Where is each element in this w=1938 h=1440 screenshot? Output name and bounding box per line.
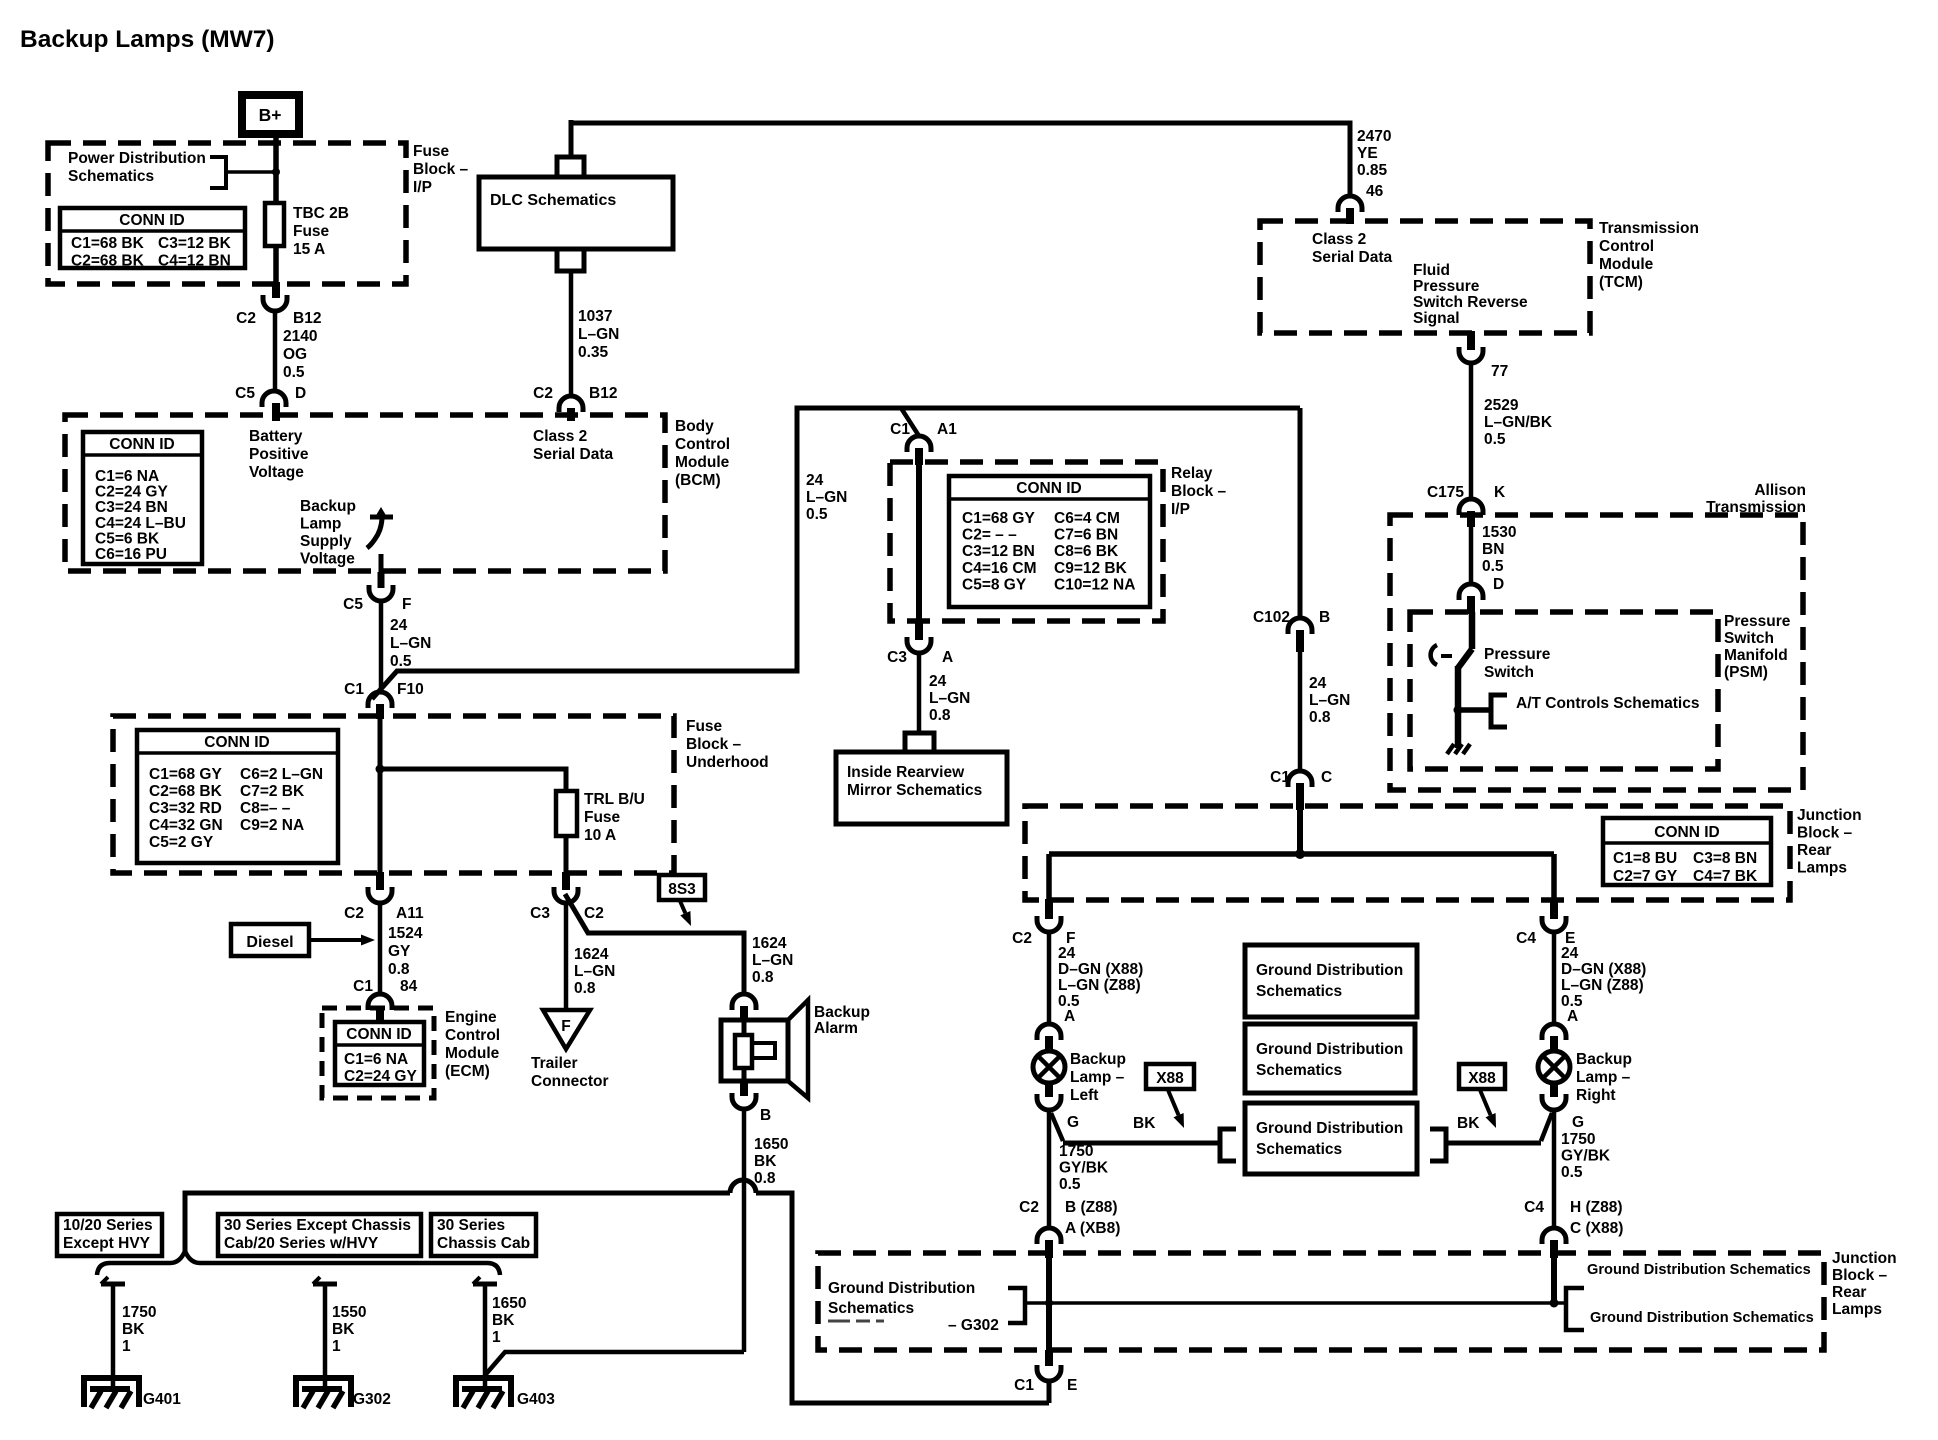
- wire left lamp ground through: [1046, 1258, 1052, 1352]
- svg-text:C2: C2: [584, 905, 604, 922]
- svg-text:Schematics: Schematics: [1256, 1062, 1342, 1079]
- label connector C5 F: [343, 596, 411, 613]
- svg-text:A/T Controls Schematics: A/T Controls Schematics: [1516, 695, 1699, 712]
- svg-text:Switch: Switch: [1484, 664, 1534, 681]
- svg-text:A: A: [1567, 1008, 1578, 1025]
- svg-text:24: 24: [806, 472, 824, 489]
- svg-text:Manifold: Manifold: [1724, 647, 1788, 664]
- ground G403: [456, 1378, 511, 1408]
- svg-text:L–GN/BK: L–GN/BK: [1484, 414, 1553, 431]
- label connector C3 C2: [530, 905, 604, 922]
- fuse block underhood box: [113, 716, 674, 873]
- svg-text:BN: BN: [1482, 541, 1504, 558]
- svg-text:1624: 1624: [752, 935, 787, 952]
- svg-text:Connector: Connector: [531, 1073, 609, 1090]
- junction block rear lamps box: [1025, 806, 1790, 900]
- tag X88 right: [1459, 1064, 1505, 1089]
- label trailer connector: [531, 1055, 609, 1090]
- svg-text:Schematics: Schematics: [68, 168, 154, 185]
- version box 30 series chassis cab: [431, 1214, 536, 1256]
- svg-text:Chassis Cab: Chassis Cab: [437, 1235, 530, 1252]
- label G302: [353, 1391, 391, 1408]
- label backup lamp supply voltage: [300, 498, 356, 568]
- svg-text:L–GN: L–GN: [806, 489, 847, 506]
- connector C1 A1: [907, 436, 931, 465]
- relay block box: [890, 462, 1163, 621]
- svg-text:Power Distribution: Power Distribution: [68, 150, 206, 167]
- svg-text:Positive: Positive: [249, 446, 309, 463]
- label backup lamp left: [1070, 1051, 1126, 1104]
- wire C1 E drop: [1047, 1380, 1052, 1403]
- engine control module box: [322, 1008, 434, 1098]
- bracket ground distribution lower: [1566, 1288, 1584, 1330]
- label connector C2 B12: [236, 310, 321, 327]
- svg-text:Ground Distribution Schematics: Ground Distribution Schematics: [1590, 1310, 1814, 1326]
- backup alarm: [721, 1000, 808, 1098]
- label wire 24 L-GN 0.8 right: [1309, 675, 1350, 726]
- svg-text:Ground Distribution: Ground Distribution: [1256, 1120, 1403, 1137]
- wire TRL branch: [380, 769, 566, 874]
- svg-text:Allison: Allison: [1754, 482, 1806, 499]
- label connector C4 E: [1516, 930, 1575, 947]
- svg-text:L–GN: L–GN: [578, 326, 619, 343]
- svg-text:Lamps: Lamps: [1832, 1301, 1882, 1318]
- label connector C1 E: [1014, 1377, 1077, 1394]
- label wire 1037 L-GN 0.35: [578, 308, 619, 361]
- svg-text:Pressure: Pressure: [1413, 278, 1480, 295]
- tag X88 left: [1146, 1064, 1194, 1089]
- svg-text:Right: Right: [1576, 1087, 1616, 1104]
- connector C2 B12: [263, 282, 287, 311]
- svg-text:24: 24: [390, 617, 408, 634]
- version box 10/20 series: [57, 1214, 162, 1256]
- svg-text:BK: BK: [1133, 1115, 1156, 1132]
- svg-text:– G302: – G302: [948, 1317, 999, 1334]
- svg-text:C3=12 BN: C3=12 BN: [962, 543, 1035, 560]
- svg-text:X88: X88: [1156, 1070, 1184, 1087]
- label connector B: [760, 1107, 771, 1124]
- svg-text:G401: G401: [143, 1391, 181, 1408]
- svg-text:1550: 1550: [332, 1304, 366, 1321]
- svg-text:C4: C4: [1524, 1199, 1544, 1216]
- svg-text:C5: C5: [343, 596, 363, 613]
- label connector G right: [1572, 1114, 1584, 1131]
- fuse TRL B/U: [556, 791, 577, 836]
- label wire 2470 YE 0.85: [1357, 128, 1391, 179]
- label connector C1 F10: [344, 681, 424, 698]
- svg-text:Trailer: Trailer: [531, 1055, 578, 1072]
- svg-text:L–GN: L–GN: [390, 635, 431, 652]
- svg-text:D–GN (X88): D–GN (X88): [1058, 961, 1143, 978]
- svg-text:C1=6 NA: C1=6 NA: [95, 468, 159, 485]
- svg-text:Fuse: Fuse: [293, 223, 330, 240]
- svg-text:E: E: [1067, 1377, 1077, 1394]
- svg-text:0.8: 0.8: [1309, 709, 1331, 726]
- node TRL branch: [376, 765, 385, 774]
- label wire 2529 L-GN/BK 0.5: [1484, 397, 1553, 448]
- svg-text:C3: C3: [887, 649, 907, 666]
- label fuse TRL B/U: [584, 791, 645, 844]
- svg-text:0.35: 0.35: [578, 344, 609, 361]
- label wire 24 L-GN 0.5: [390, 617, 431, 670]
- svg-text:Supply: Supply: [300, 533, 352, 550]
- svg-text:Fuse: Fuse: [686, 718, 723, 735]
- svg-text:G: G: [1067, 1114, 1079, 1131]
- label fuse block I/P: [413, 143, 469, 196]
- svg-text:B: B: [1319, 609, 1330, 626]
- svg-text:C1=8 BU: C1=8 BU: [1613, 850, 1677, 867]
- allison transmission box: [1390, 515, 1803, 790]
- wire BK branch right: [1446, 1113, 1552, 1143]
- svg-text:CONN ID: CONN ID: [109, 436, 174, 453]
- label connector C2 B12 bcm: [533, 385, 617, 402]
- label connector C2 A11: [344, 905, 424, 922]
- svg-text:C2: C2: [236, 310, 256, 327]
- svg-text:X88: X88: [1468, 1070, 1496, 1087]
- wire underhood main: [378, 719, 383, 874]
- version box 30 series except: [218, 1214, 421, 1256]
- pin bracket mirror: [905, 733, 934, 753]
- svg-text:BK: BK: [1457, 1115, 1480, 1132]
- ground distribution schematics box 2: [1245, 1024, 1415, 1093]
- wire 24 D-GN right: [1552, 931, 1557, 1025]
- svg-text:Module: Module: [445, 1045, 500, 1062]
- label wire 1650 BK 1: [492, 1295, 526, 1346]
- svg-text:F: F: [402, 596, 411, 613]
- svg-text:F: F: [561, 1018, 570, 1035]
- svg-text:C2=68 BK: C2=68 BK: [71, 252, 145, 269]
- label ground distribution schematics upper: [1587, 1262, 1811, 1278]
- svg-text:Left: Left: [1070, 1087, 1098, 1104]
- svg-text:2470: 2470: [1357, 128, 1391, 145]
- wire class2 to TCM: [571, 123, 1350, 198]
- svg-text:Junction: Junction: [1832, 1250, 1897, 1267]
- label wire 1750 GY/BK right: [1561, 1131, 1611, 1181]
- arrow X88 left: [1168, 1090, 1184, 1128]
- svg-text:0.8: 0.8: [929, 707, 951, 724]
- svg-text:C: C: [1321, 769, 1332, 786]
- wire 1650 BK 0.8: [742, 1109, 747, 1352]
- label class 2 serial data TCM: [1312, 231, 1393, 266]
- svg-text:B12: B12: [589, 385, 617, 402]
- wire right lamp ground end: [1551, 1258, 1557, 1303]
- svg-text:Inside Rearview: Inside Rearview: [847, 764, 965, 781]
- label connector D: [1493, 576, 1504, 593]
- bracket power distribution: [210, 157, 226, 188]
- svg-text:C8=– –: C8=– –: [240, 800, 291, 817]
- connector lamp left bottom G: [1037, 1081, 1061, 1110]
- svg-text:C4=24 L–BU: C4=24 L–BU: [95, 515, 186, 532]
- label connector C3 A: [887, 649, 953, 666]
- backup lamp right: [1538, 1051, 1570, 1083]
- fuse block I/P box: [48, 143, 406, 284]
- svg-text:C2=24 GY: C2=24 GY: [344, 1068, 417, 1085]
- svg-text:C2: C2: [344, 905, 364, 922]
- label backup lamp right: [1576, 1051, 1632, 1104]
- label pressure switch: [1484, 646, 1551, 681]
- svg-text:C7=6 BN: C7=6 BN: [1054, 527, 1118, 544]
- svg-text:TBC 2B: TBC 2B: [293, 205, 349, 222]
- connector C1 84: [368, 994, 392, 1023]
- splice wire G302: [313, 1277, 337, 1390]
- svg-text:Ground Distribution Schematics: Ground Distribution Schematics: [1587, 1262, 1811, 1278]
- svg-text:Transmission: Transmission: [1599, 220, 1699, 237]
- body control module box: [65, 415, 665, 571]
- connector C3 A: [907, 620, 931, 653]
- connector 46: [1338, 196, 1362, 224]
- svg-text:C1: C1: [353, 978, 373, 995]
- svg-text:Block –: Block –: [1171, 483, 1227, 500]
- svg-text:BK: BK: [122, 1321, 145, 1338]
- connector lamp right bottom G: [1542, 1081, 1566, 1110]
- label wire 24 D-GN right: [1561, 945, 1646, 1025]
- svg-text:Block –: Block –: [413, 161, 469, 178]
- label fuse TBC 2B: [293, 205, 349, 258]
- svg-text:I/P: I/P: [413, 179, 432, 196]
- label class 2 serial data: [533, 428, 614, 463]
- conn table underhood: [137, 730, 338, 863]
- label connector G left: [1067, 1114, 1079, 1131]
- svg-text:Backup: Backup: [814, 1004, 870, 1021]
- svg-text:C2=7 GY: C2=7 GY: [1613, 868, 1678, 885]
- svg-text:C1=68 GY: C1=68 GY: [149, 766, 222, 783]
- svg-text:GY/BK: GY/BK: [1561, 1148, 1611, 1165]
- connector C2 A11: [368, 872, 392, 903]
- svg-text:Control: Control: [1599, 238, 1654, 255]
- svg-text:(ECM): (ECM): [445, 1063, 490, 1080]
- wire 1750 GY/BK right: [1552, 1109, 1557, 1229]
- svg-text:Schematics: Schematics: [828, 1300, 914, 1317]
- connector C2 F: [1037, 899, 1061, 932]
- label G401: [143, 1391, 181, 1408]
- wire 1624 L-GN 0.8 trailer: [564, 902, 569, 1010]
- label ground distribution schematics lower: [1590, 1310, 1814, 1326]
- svg-text:CONN ID: CONN ID: [346, 1026, 411, 1043]
- svg-text:CONN ID: CONN ID: [204, 734, 269, 751]
- label G403: [517, 1391, 555, 1408]
- svg-text:Lamp –: Lamp –: [1070, 1069, 1125, 1086]
- svg-text:Voltage: Voltage: [300, 551, 355, 568]
- svg-text:D: D: [295, 385, 306, 402]
- svg-text:A: A: [1064, 1008, 1075, 1025]
- svg-text:C3: C3: [530, 905, 550, 922]
- connector lamp right top: [1542, 1024, 1566, 1053]
- svg-text:C1=6 NA: C1=6 NA: [344, 1051, 408, 1068]
- svg-text:0.5: 0.5: [1484, 431, 1506, 448]
- svg-text:1037: 1037: [578, 308, 612, 325]
- label connector C2 B Z88: [1019, 1199, 1120, 1237]
- svg-text:C2: C2: [533, 385, 553, 402]
- svg-text:Rear: Rear: [1797, 842, 1831, 859]
- label wire 24 L-GN 0.8 mirror: [929, 673, 970, 724]
- svg-text:24: 24: [1309, 675, 1327, 692]
- svg-text:1: 1: [122, 1338, 131, 1355]
- svg-text:Class 2: Class 2: [1312, 231, 1366, 248]
- junction block rear lamps lower box: [818, 1253, 1824, 1350]
- wire DLC drop: [569, 120, 574, 157]
- svg-text:Fluid: Fluid: [1413, 262, 1450, 279]
- label wire 1750 GY/BK left: [1059, 1143, 1109, 1193]
- svg-text:L–GN (Z88): L–GN (Z88): [1058, 977, 1141, 994]
- svg-text:G: G: [1572, 1114, 1584, 1131]
- wire 24 L-GN 0.8 mirror: [917, 652, 922, 733]
- label wire 1530 BN 0.5: [1482, 524, 1516, 575]
- svg-text:Block –: Block –: [686, 736, 742, 753]
- wire alarm ground join: [486, 1352, 744, 1374]
- svg-text:Transmission: Transmission: [1706, 499, 1806, 516]
- diesel tag: [231, 924, 309, 956]
- svg-text:C7=2 BK: C7=2 BK: [240, 783, 305, 800]
- svg-text:0.8: 0.8: [574, 980, 596, 997]
- label fuse block underhood: [686, 718, 769, 771]
- connector C2 B Z88: [1037, 1228, 1061, 1258]
- connector alarm bottom B: [732, 1081, 756, 1109]
- ground distribution schematics box 3: [1245, 1103, 1417, 1174]
- connector C1 C: [1288, 771, 1312, 810]
- svg-text:Backup: Backup: [1070, 1051, 1126, 1068]
- svg-text:Engine: Engine: [445, 1009, 497, 1026]
- svg-text:46: 46: [1366, 183, 1384, 200]
- svg-text:B+: B+: [259, 105, 282, 125]
- connector lamp left top: [1037, 1024, 1061, 1053]
- connector C3 C2: [554, 872, 578, 903]
- node power distribution tap: [226, 168, 280, 176]
- wire 2140 OG 0.5: [273, 310, 278, 392]
- svg-text:0.85: 0.85: [1357, 162, 1388, 179]
- svg-text:Ground Distribution: Ground Distribution: [1256, 1041, 1403, 1058]
- connector C2 B12 bcm: [559, 396, 583, 421]
- arrow X88 right: [1480, 1090, 1496, 1128]
- fuse TBC 2B: [265, 203, 284, 246]
- conn table junction block: [1603, 818, 1771, 885]
- pressure switch manifold box: [1410, 612, 1718, 769]
- label wire 1624 L-GN 0.8 alarm: [752, 935, 793, 986]
- svg-text:L–GN: L–GN: [929, 690, 970, 707]
- svg-text:1750: 1750: [122, 1304, 156, 1321]
- svg-text:0.5: 0.5: [806, 506, 828, 523]
- svg-text:C102: C102: [1253, 609, 1290, 626]
- connector C4 E: [1542, 899, 1566, 932]
- splice wire G403: [473, 1277, 497, 1390]
- svg-text:G403: G403: [517, 1391, 555, 1408]
- svg-text:Cab/20 Series w/HVY: Cab/20 Series w/HVY: [224, 1235, 379, 1252]
- svg-text:Ground Distribution: Ground Distribution: [828, 1280, 975, 1297]
- svg-text:C4=12 BN: C4=12 BN: [158, 252, 231, 269]
- svg-text:0.8: 0.8: [752, 969, 774, 986]
- svg-text:0.8: 0.8: [754, 1170, 776, 1187]
- svg-text:C (X88): C (X88): [1570, 1220, 1623, 1237]
- label TCM: [1599, 220, 1699, 291]
- svg-text:Serial Data: Serial Data: [533, 446, 614, 463]
- svg-text:C9=2 NA: C9=2 NA: [240, 817, 304, 834]
- svg-text:D: D: [1493, 576, 1504, 593]
- svg-text:CONN ID: CONN ID: [119, 212, 184, 229]
- svg-text:0.5: 0.5: [1059, 1176, 1081, 1193]
- svg-text:BK: BK: [332, 1321, 355, 1338]
- svg-text:Ground Distribution: Ground Distribution: [1256, 962, 1403, 979]
- svg-text:0.5: 0.5: [1561, 1164, 1583, 1181]
- svg-text:A1: A1: [937, 421, 957, 438]
- svg-text:(PSM): (PSM): [1724, 664, 1768, 681]
- wire 1750 GY/BK left: [1047, 1109, 1052, 1229]
- svg-text:Module: Module: [675, 454, 730, 471]
- label BK right: [1457, 1115, 1480, 1132]
- label wire 1650 BK 0.8: [754, 1136, 788, 1187]
- connector C4 H Z88: [1542, 1228, 1566, 1258]
- label connector 46: [1366, 183, 1384, 200]
- svg-text:CONN ID: CONN ID: [1016, 480, 1081, 497]
- svg-text:C5=2 GY: C5=2 GY: [149, 834, 214, 851]
- svg-text:B12: B12: [293, 310, 321, 327]
- svg-text:Switch Reverse: Switch Reverse: [1413, 294, 1528, 311]
- bracket G302: [1008, 1288, 1025, 1323]
- svg-text:C1: C1: [1014, 1377, 1034, 1394]
- ground distribution schematics box 1: [1245, 945, 1417, 1017]
- svg-text:1624: 1624: [574, 946, 609, 963]
- label wire 1624 L-GN 0.8 trailer: [574, 946, 615, 997]
- label connector C1 A1: [890, 421, 957, 438]
- svg-text:BK: BK: [754, 1153, 777, 1170]
- svg-text:1650: 1650: [754, 1136, 788, 1153]
- svg-text:B: B: [760, 1107, 771, 1124]
- svg-text:C6=4 CM: C6=4 CM: [1054, 510, 1120, 527]
- svg-text:C1: C1: [890, 421, 910, 438]
- svg-text:30 Series: 30 Series: [437, 1217, 505, 1234]
- node A/T tap: [1454, 706, 1492, 715]
- wire 24 L-GN 0.5 vertical: [379, 600, 384, 692]
- wire 1530 BN 0.5: [1469, 527, 1474, 586]
- svg-text:0.8: 0.8: [388, 961, 410, 978]
- conn table BCM: [83, 432, 202, 564]
- svg-text:C10=12 NA: C10=12 NA: [1054, 576, 1135, 593]
- label BCM: [675, 418, 730, 489]
- label PSM: [1724, 613, 1791, 681]
- svg-text:Block –: Block –: [1832, 1267, 1888, 1284]
- svg-text:Switch: Switch: [1724, 630, 1774, 647]
- battery B+ terminal: [242, 95, 299, 134]
- label fluid pressure switch reverse signal: [1413, 262, 1528, 327]
- svg-text:C3=32 RD: C3=32 RD: [149, 800, 222, 817]
- connector C1 F10: [368, 692, 392, 719]
- svg-text:Diesel: Diesel: [246, 934, 293, 951]
- label connector 77: [1491, 363, 1508, 380]
- connector C5 F: [369, 572, 393, 601]
- label inside rearview mirror: [847, 764, 982, 799]
- transmission control module box: [1260, 221, 1590, 333]
- svg-text:C3=8 BN: C3=8 BN: [1693, 850, 1757, 867]
- svg-text:K: K: [1494, 484, 1506, 501]
- svg-text:Battery: Battery: [249, 428, 303, 445]
- svg-text:1750: 1750: [1059, 1143, 1093, 1160]
- label wire 2140 OG 0.5: [283, 328, 317, 381]
- svg-text:24: 24: [1561, 945, 1579, 962]
- svg-text:24: 24: [1058, 945, 1076, 962]
- label wire 24 D-GN left: [1058, 945, 1143, 1025]
- label A/T controls schematics: [1516, 695, 1699, 712]
- svg-text:C5: C5: [235, 385, 255, 402]
- svg-text:D–GN (X88): D–GN (X88): [1561, 961, 1646, 978]
- svg-text:C4=32 GN: C4=32 GN: [149, 817, 223, 834]
- svg-text:C9=12 BK: C9=12 BK: [1054, 560, 1128, 577]
- ground G302: [296, 1378, 351, 1408]
- wire to backup alarm: [565, 894, 744, 995]
- wire relay drop diagonal: [901, 408, 919, 436]
- svg-text:Control: Control: [445, 1027, 500, 1044]
- label backup alarm: [814, 1004, 870, 1037]
- svg-text:Signal: Signal: [1413, 310, 1460, 327]
- svg-text:Body: Body: [675, 418, 714, 435]
- svg-text:Lamp –: Lamp –: [1576, 1069, 1631, 1086]
